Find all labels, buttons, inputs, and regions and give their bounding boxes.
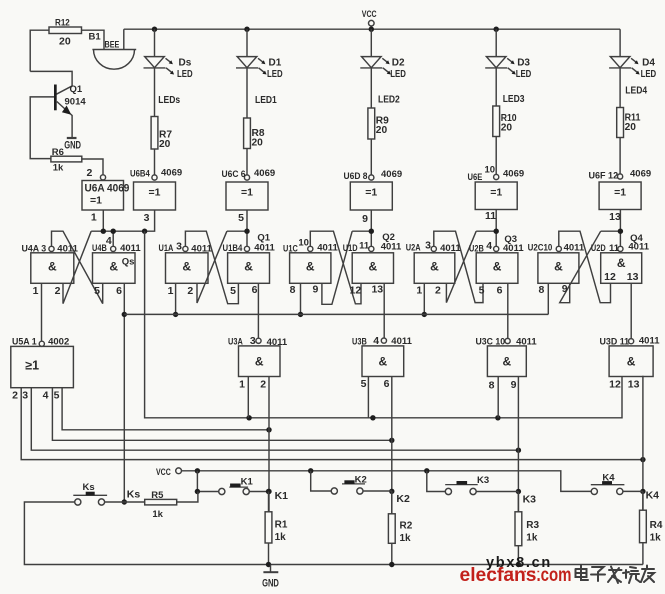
svg-text:4: 4 xyxy=(486,240,492,252)
svg-text:K2: K2 xyxy=(396,493,410,505)
svg-text:=1: =1 xyxy=(614,186,626,198)
svg-text:LED: LED xyxy=(267,69,283,80)
svg-text:K1: K1 xyxy=(275,490,289,502)
svg-text:4002: 4002 xyxy=(48,337,69,348)
svg-text:4: 4 xyxy=(106,235,112,247)
svg-text:4: 4 xyxy=(373,335,379,347)
svg-text:&: & xyxy=(306,260,315,274)
svg-text:.com: .com xyxy=(537,564,572,586)
svg-text:9014: 9014 xyxy=(65,97,87,108)
svg-text:20: 20 xyxy=(501,123,513,134)
svg-text:U2B: U2B xyxy=(469,243,484,254)
svg-text:LED3: LED3 xyxy=(503,93,525,105)
svg-text:1k: 1k xyxy=(53,163,64,174)
svg-text:&: & xyxy=(627,355,636,369)
svg-text:U2C10: U2C10 xyxy=(528,242,553,253)
svg-text:4069: 4069 xyxy=(630,169,651,180)
svg-text:LED1: LED1 xyxy=(255,94,277,106)
svg-text:&: & xyxy=(554,260,563,274)
svg-text:20: 20 xyxy=(376,125,388,136)
svg-text:LED: LED xyxy=(390,69,406,80)
svg-text:U1C: U1C xyxy=(283,244,298,255)
svg-text:4011: 4011 xyxy=(120,243,141,254)
svg-text:=1: =1 xyxy=(149,186,161,198)
svg-text:13: 13 xyxy=(627,271,639,283)
svg-text:D1: D1 xyxy=(269,57,282,68)
svg-text:K4: K4 xyxy=(646,490,660,502)
svg-text:≥1: ≥1 xyxy=(25,359,39,373)
svg-text:D3: D3 xyxy=(517,57,530,68)
svg-text:&: & xyxy=(244,260,253,274)
svg-text:U1B4: U1B4 xyxy=(223,243,243,254)
svg-text:4011: 4011 xyxy=(381,241,402,252)
svg-text:U3A: U3A xyxy=(228,337,243,348)
svg-text:&: & xyxy=(255,355,264,369)
svg-text:4011: 4011 xyxy=(191,243,212,254)
svg-text:U4A 3: U4A 3 xyxy=(22,244,47,255)
svg-text:R12: R12 xyxy=(55,18,70,29)
svg-text:R1: R1 xyxy=(275,520,288,531)
svg-text:&: & xyxy=(430,260,439,274)
svg-text:LED2: LED2 xyxy=(378,94,400,106)
svg-text:5: 5 xyxy=(238,212,244,224)
svg-text:K2: K2 xyxy=(355,475,367,486)
svg-text:1: 1 xyxy=(239,379,245,391)
svg-text:&: & xyxy=(493,260,502,274)
svg-text:20: 20 xyxy=(59,36,71,48)
svg-text:13: 13 xyxy=(628,379,640,391)
svg-text:LEDs: LEDs xyxy=(158,94,180,106)
svg-text:GND: GND xyxy=(262,578,279,590)
svg-text:U1D: U1D xyxy=(343,243,358,254)
svg-text:6: 6 xyxy=(252,284,258,296)
svg-text:20: 20 xyxy=(252,138,264,149)
svg-text:U2D: U2D xyxy=(591,243,606,254)
svg-text:=1: =1 xyxy=(241,186,253,198)
svg-text:=1: =1 xyxy=(365,186,377,198)
svg-text:11: 11 xyxy=(485,210,496,222)
svg-text:2: 2 xyxy=(86,167,92,179)
svg-text:10: 10 xyxy=(298,237,309,248)
svg-text:6: 6 xyxy=(497,285,503,297)
svg-text:Ks: Ks xyxy=(127,489,141,501)
svg-text:R5: R5 xyxy=(151,490,164,501)
svg-text:Q4: Q4 xyxy=(630,233,643,244)
svg-text:Ds: Ds xyxy=(179,57,192,68)
svg-text:&: & xyxy=(379,355,388,369)
svg-text:U6D 8: U6D 8 xyxy=(344,171,368,182)
svg-text:10: 10 xyxy=(485,165,496,176)
svg-text:U6B4: U6B4 xyxy=(130,169,150,180)
svg-text:5: 5 xyxy=(361,378,367,390)
svg-text:U2A: U2A xyxy=(406,243,421,254)
svg-text:9: 9 xyxy=(362,213,368,225)
svg-text:K1: K1 xyxy=(241,477,254,488)
svg-text:20: 20 xyxy=(625,122,637,133)
svg-text:5: 5 xyxy=(479,285,485,297)
svg-text:U4B: U4B xyxy=(92,243,107,254)
svg-text:&: & xyxy=(503,355,512,369)
svg-text:3: 3 xyxy=(425,240,431,252)
svg-text:elecfans: elecfans xyxy=(460,564,537,586)
svg-text:4011: 4011 xyxy=(267,337,288,348)
svg-text:3: 3 xyxy=(250,335,256,347)
svg-text:LED: LED xyxy=(516,69,532,80)
svg-text:LED: LED xyxy=(177,69,193,80)
svg-text:VCC: VCC xyxy=(362,9,377,20)
svg-text:LED4: LED4 xyxy=(625,85,647,97)
svg-text:1k: 1k xyxy=(275,532,287,543)
svg-text:4011: 4011 xyxy=(564,242,585,253)
svg-text:4069: 4069 xyxy=(161,168,182,179)
svg-text:4011: 4011 xyxy=(254,242,275,253)
svg-text:R2: R2 xyxy=(400,521,413,532)
svg-text:Q1: Q1 xyxy=(257,233,270,244)
svg-text:&: & xyxy=(48,260,57,274)
svg-text:U6F 12: U6F 12 xyxy=(589,171,619,182)
svg-text:D4: D4 xyxy=(642,57,655,68)
svg-text:4011: 4011 xyxy=(317,243,338,254)
svg-text:12: 12 xyxy=(604,271,616,283)
svg-text:8: 8 xyxy=(489,380,495,392)
svg-text:4011: 4011 xyxy=(516,337,537,348)
svg-text:K4: K4 xyxy=(602,473,615,484)
svg-text:B1: B1 xyxy=(89,32,102,43)
svg-text:1k: 1k xyxy=(400,533,412,544)
svg-text:2: 2 xyxy=(260,379,266,391)
svg-text:4069: 4069 xyxy=(254,168,275,179)
svg-text:4011: 4011 xyxy=(639,336,660,347)
svg-text:2: 2 xyxy=(55,285,61,297)
svg-text:U3D 11: U3D 11 xyxy=(600,337,630,348)
svg-text:5: 5 xyxy=(54,390,60,402)
svg-text:1: 1 xyxy=(168,285,174,297)
svg-text:13: 13 xyxy=(609,211,621,223)
svg-text:9: 9 xyxy=(312,284,318,296)
svg-text:4: 4 xyxy=(43,390,49,402)
svg-text:=1: =1 xyxy=(90,195,102,207)
svg-text:1k: 1k xyxy=(152,509,163,520)
svg-text:3: 3 xyxy=(22,390,28,402)
svg-text:U3C 10: U3C 10 xyxy=(476,337,506,348)
svg-text:6: 6 xyxy=(116,285,122,297)
svg-text:LED: LED xyxy=(641,69,657,80)
svg-text:R4: R4 xyxy=(650,520,663,531)
svg-text:4011: 4011 xyxy=(440,243,461,254)
svg-text:U1A: U1A xyxy=(159,243,174,254)
svg-text:&: & xyxy=(182,260,191,274)
svg-text:9: 9 xyxy=(511,379,517,391)
svg-text:BEE: BEE xyxy=(105,40,120,51)
svg-text:U6E: U6E xyxy=(468,172,483,183)
svg-text:8: 8 xyxy=(290,284,296,296)
svg-text:4069: 4069 xyxy=(503,169,524,180)
svg-text:Ks: Ks xyxy=(83,482,95,493)
svg-text:9: 9 xyxy=(562,283,568,295)
svg-text:K3: K3 xyxy=(477,475,489,486)
svg-text:4011: 4011 xyxy=(391,336,412,347)
svg-text:11: 11 xyxy=(359,240,370,251)
svg-text:13: 13 xyxy=(371,284,383,296)
svg-text:1k: 1k xyxy=(650,533,662,544)
svg-text:&: & xyxy=(369,260,378,274)
svg-text:2: 2 xyxy=(12,390,18,402)
svg-text:U3B: U3B xyxy=(352,337,367,348)
svg-text:1: 1 xyxy=(416,285,422,297)
svg-text:U6C 6: U6C 6 xyxy=(222,169,246,180)
svg-text:U5A 1: U5A 1 xyxy=(12,337,37,348)
svg-text:1: 1 xyxy=(91,212,97,224)
svg-text:&: & xyxy=(109,260,118,274)
svg-text:2: 2 xyxy=(187,285,193,297)
svg-text:K3: K3 xyxy=(523,494,537,506)
svg-text:GND: GND xyxy=(64,140,81,152)
svg-text:12: 12 xyxy=(609,379,621,391)
svg-text:R3: R3 xyxy=(526,520,539,531)
svg-text:1k: 1k xyxy=(526,533,538,544)
svg-text:D2: D2 xyxy=(392,57,405,68)
svg-text:R6: R6 xyxy=(52,147,64,158)
svg-text:1: 1 xyxy=(33,285,39,297)
svg-text:&: & xyxy=(617,256,626,270)
svg-text:Q3: Q3 xyxy=(504,234,517,245)
svg-text:5: 5 xyxy=(230,285,236,297)
svg-text:3: 3 xyxy=(144,212,150,224)
svg-text:Q1: Q1 xyxy=(70,84,83,95)
svg-text:2: 2 xyxy=(435,285,441,297)
svg-text:VCC: VCC xyxy=(156,467,171,478)
svg-text:8: 8 xyxy=(538,284,544,296)
svg-text:20: 20 xyxy=(159,139,171,150)
svg-text:11: 11 xyxy=(609,243,620,254)
svg-text:4069: 4069 xyxy=(381,169,402,180)
svg-text:U6A 4069: U6A 4069 xyxy=(85,183,130,195)
svg-text:Qs: Qs xyxy=(122,257,135,268)
svg-text:=1: =1 xyxy=(490,186,502,198)
svg-text:4011: 4011 xyxy=(57,244,78,255)
svg-text:5: 5 xyxy=(94,285,100,297)
svg-text:Q2: Q2 xyxy=(382,232,395,243)
svg-text:3: 3 xyxy=(176,240,182,252)
svg-text:6: 6 xyxy=(384,378,390,390)
svg-text:12: 12 xyxy=(350,285,362,297)
